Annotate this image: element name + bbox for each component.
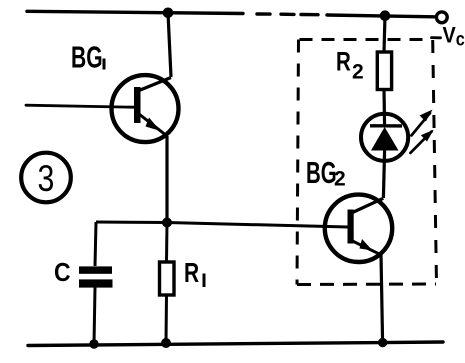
svg-text:R: R [336, 47, 351, 77]
svg-text:c: c [456, 28, 465, 50]
svg-text:BG: BG [71, 40, 103, 75]
svg-text:2: 2 [334, 168, 346, 191]
svg-text:V: V [443, 24, 456, 48]
svg-text:2: 2 [352, 61, 364, 84]
svg-text:C: C [54, 259, 71, 287]
svg-text:3: 3 [38, 158, 55, 200]
svg-text:BG: BG [306, 155, 337, 190]
svg-text:R: R [184, 258, 199, 289]
